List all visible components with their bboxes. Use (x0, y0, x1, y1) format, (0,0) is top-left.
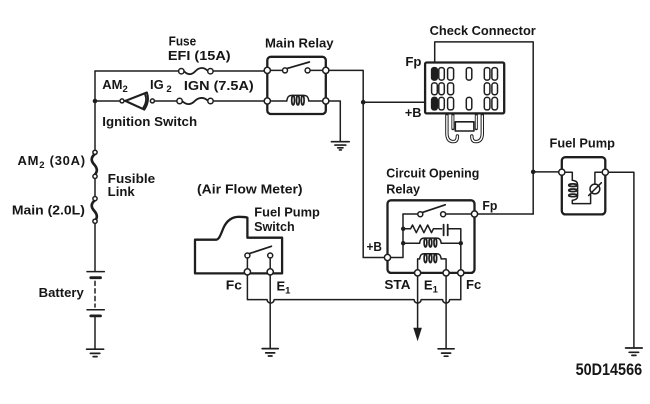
fuse EFI (15A) (179, 68, 213, 74)
relay coil L2 (STA) (418, 254, 447, 270)
arrowhead: STA (413, 328, 422, 342)
fusible link AM2 (30A) (92, 150, 97, 178)
svg-text:50D14566: 50D14566 (576, 361, 643, 379)
svg-text:Fuel Pump: Fuel Pump (550, 136, 615, 151)
svg-text:Fp: Fp (405, 54, 421, 69)
circuit opening relay terminals (384, 211, 477, 276)
fuel pump switch contacts (245, 246, 273, 269)
wire: top EFI wire (95, 70, 267, 72)
fuse IGN (7.5A) (177, 98, 213, 104)
check connector pins row 1 (432, 68, 498, 81)
node: coil row right dot (459, 241, 463, 245)
node: rail dot coil row (401, 241, 405, 245)
wire: battery to ground (94, 317, 96, 349)
svg-text:Circuit Opening: Circuit Opening (386, 166, 479, 181)
svg-text:STA: STA (384, 277, 411, 292)
check connector box (425, 63, 504, 114)
wire: main relay coil to ground (329, 101, 340, 142)
svg-text:Relay: Relay (386, 182, 420, 197)
wire: fusible link to battery (94, 224, 96, 271)
svg-text:Check Connector: Check Connector (430, 23, 536, 38)
wire: relay E1 to ground (445, 276, 447, 349)
circuit opening relay internal +B rail (391, 214, 403, 258)
ignition switch (120, 93, 154, 110)
wire: E1 to ground (269, 275, 271, 348)
svg-text:E1: E1 (424, 278, 439, 296)
ground: air flow meter E1 (262, 349, 278, 356)
check connector pins row 2 (432, 83, 498, 95)
svg-text:Link: Link (108, 184, 136, 199)
wire: main relay output to +B rail (329, 70, 385, 257)
fuel pump terminals (559, 169, 609, 175)
svg-text:Main (2.0L): Main (2.0L) (12, 203, 85, 218)
svg-text:IG2: IG2 (150, 77, 172, 95)
ground: fuel pump (626, 348, 643, 355)
node: rail dot resistor row (401, 227, 405, 231)
wire: dot down to Fc terminal (460, 243, 462, 270)
svg-text:Main Relay: Main Relay (265, 36, 334, 51)
svg-text:(Air Flow Meter): (Air Flow Meter) (197, 181, 303, 196)
svg-text:IGN (7.5A): IGN (7.5A) (184, 78, 254, 93)
node: fuel pump junction dot (531, 170, 536, 175)
wire: STA arrow to starter (417, 276, 419, 329)
svg-text:Battery: Battery (39, 285, 85, 300)
check connector mounting legs (447, 115, 482, 142)
fuel pump internal coil (565, 172, 591, 203)
ground: relay E1 (438, 349, 454, 356)
wire: ignition switch to IGN fuse (155, 100, 267, 102)
wire: junction to fuel pump (533, 171, 559, 173)
circuit opening relay box (388, 200, 475, 273)
air flow meter outline (195, 217, 282, 274)
main relay switch contacts (270, 62, 323, 73)
check connector pins row 3 (432, 97, 498, 110)
circuit opening relay switch (403, 205, 471, 217)
main relay terminals (264, 67, 329, 104)
wire: relay Fp to fuel pump junction (478, 213, 534, 215)
ground: main relay (331, 142, 349, 150)
svg-text:Fuel Pump: Fuel Pump (254, 204, 320, 219)
svg-text:Fc: Fc (226, 278, 242, 293)
wire: +B to check connector (363, 101, 432, 103)
relay coil L1 (403, 238, 461, 247)
wire: check connector bracket (435, 42, 534, 214)
svg-text:Ignition Switch: Ignition Switch (102, 114, 197, 129)
svg-text:Switch: Switch (254, 219, 295, 234)
wire: ignition wire AM2 (95, 100, 119, 102)
svg-text:Fp: Fp (482, 198, 497, 213)
resistor R1 (403, 225, 441, 233)
wire: left battery rail top (94, 71, 96, 149)
fuel pump switch terminals (244, 269, 273, 275)
main relay U1 box (267, 57, 326, 114)
main relay coil (270, 95, 323, 105)
fusible link Main (2.0L) (92, 197, 97, 224)
battery (87, 272, 104, 316)
svg-text:+B: +B (367, 239, 382, 254)
ground: battery (87, 349, 104, 356)
node: +B junction dot (361, 100, 366, 105)
svg-text:Fuse: Fuse (169, 34, 197, 49)
svg-text:Fc: Fc (466, 277, 481, 292)
fuel pump motor M (589, 172, 603, 195)
node: AM2 junction dot (93, 99, 98, 104)
svg-text:+B: +B (405, 105, 422, 120)
fuel pump box (562, 157, 606, 214)
wire: fuel pump to ground (608, 172, 634, 348)
svg-text:AM2 (30A): AM2 (30A) (18, 153, 86, 171)
svg-text:AM2: AM2 (102, 77, 128, 95)
wire: Fc to relay Fc with hops (247, 275, 460, 303)
wire: between fusible links (94, 179, 96, 196)
capacitor C1 (444, 225, 461, 241)
svg-text:EFI (15A): EFI (15A) (168, 48, 231, 63)
svg-text:E1: E1 (277, 279, 292, 297)
